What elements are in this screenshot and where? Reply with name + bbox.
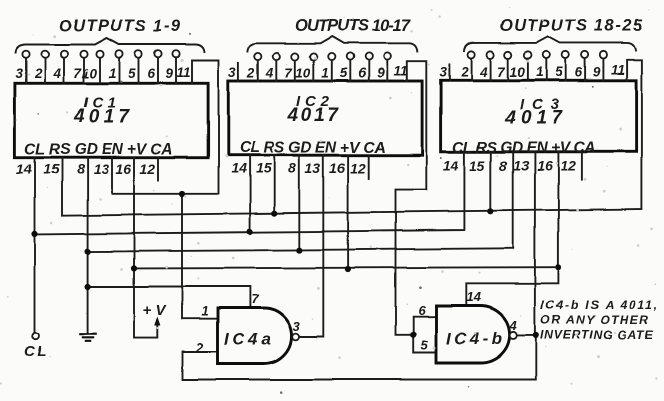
svg-text:OR ANY OTHER: OR ANY OTHER bbox=[541, 313, 649, 327]
svg-text:4: 4 bbox=[265, 66, 274, 81]
svg-text:2: 2 bbox=[195, 340, 204, 355]
svg-text:11: 11 bbox=[610, 63, 624, 78]
svg-text:+V: +V bbox=[143, 302, 168, 319]
svg-text:15: 15 bbox=[256, 160, 272, 176]
svg-text:14: 14 bbox=[467, 290, 482, 305]
svg-text:5: 5 bbox=[555, 65, 563, 80]
svg-text:12: 12 bbox=[139, 161, 155, 177]
svg-text:3: 3 bbox=[15, 66, 23, 81]
svg-text:CL RS GD EN +V CA: CL RS GD EN +V CA bbox=[453, 140, 596, 157]
svg-text:8: 8 bbox=[289, 160, 297, 176]
svg-text:IC4-b: IC4-b bbox=[446, 329, 502, 348]
svg-text:OUTPUTS 18-25: OUTPUTS 18-25 bbox=[500, 17, 643, 35]
svg-text:10: 10 bbox=[82, 66, 98, 81]
svg-text:5: 5 bbox=[421, 338, 429, 353]
svg-text:1: 1 bbox=[321, 66, 329, 81]
svg-text:6: 6 bbox=[575, 65, 583, 80]
svg-text:5: 5 bbox=[128, 66, 136, 81]
svg-text:14: 14 bbox=[16, 161, 32, 177]
svg-text:13: 13 bbox=[93, 161, 109, 177]
svg-text:13: 13 bbox=[305, 160, 321, 176]
svg-text:3: 3 bbox=[228, 65, 236, 80]
svg-text:4: 4 bbox=[52, 66, 61, 81]
svg-text:6: 6 bbox=[358, 66, 366, 81]
svg-text:15: 15 bbox=[43, 161, 59, 177]
svg-text:6: 6 bbox=[418, 303, 426, 318]
svg-text:9: 9 bbox=[377, 66, 385, 81]
svg-text:2: 2 bbox=[246, 66, 255, 81]
svg-text:9: 9 bbox=[165, 66, 173, 81]
svg-text:1: 1 bbox=[536, 65, 544, 80]
svg-text:16: 16 bbox=[537, 158, 553, 174]
svg-text:15: 15 bbox=[469, 158, 485, 174]
svg-text:13: 13 bbox=[513, 158, 529, 174]
svg-text:3: 3 bbox=[293, 319, 301, 334]
svg-text:6: 6 bbox=[147, 66, 155, 81]
svg-text:4: 4 bbox=[479, 65, 488, 80]
svg-text:OUTPUTS 10-17: OUTPUTS 10-17 bbox=[295, 17, 411, 35]
svg-text:8: 8 bbox=[77, 161, 85, 177]
svg-text:11: 11 bbox=[393, 64, 407, 79]
svg-text:7: 7 bbox=[251, 292, 259, 307]
svg-text:2: 2 bbox=[33, 66, 42, 81]
svg-text:CL RS GD EN +V CA: CL RS GD EN +V CA bbox=[25, 141, 173, 158]
svg-text:12: 12 bbox=[560, 158, 576, 174]
svg-text:5: 5 bbox=[340, 66, 348, 81]
svg-text:2: 2 bbox=[460, 65, 469, 80]
svg-text:10: 10 bbox=[295, 66, 311, 81]
svg-text:9: 9 bbox=[593, 65, 601, 80]
svg-text:10: 10 bbox=[510, 65, 526, 80]
svg-text:16: 16 bbox=[330, 160, 346, 176]
svg-text:3: 3 bbox=[439, 65, 447, 80]
svg-text:INVERTING GATE: INVERTING GATE bbox=[540, 328, 654, 342]
svg-text:1: 1 bbox=[108, 66, 116, 81]
svg-text:14: 14 bbox=[443, 158, 459, 174]
svg-text:16: 16 bbox=[115, 161, 131, 177]
svg-text:14: 14 bbox=[232, 160, 248, 176]
svg-text:12: 12 bbox=[350, 160, 366, 176]
svg-text:1: 1 bbox=[201, 304, 208, 319]
svg-text:11: 11 bbox=[176, 65, 190, 80]
svg-text:4: 4 bbox=[509, 318, 518, 333]
svg-text:OUTPUTS 1-9: OUTPUTS 1-9 bbox=[59, 18, 181, 36]
svg-text:CL RS GD EN +V CA: CL RS GD EN +V CA bbox=[240, 140, 386, 157]
svg-text:8: 8 bbox=[499, 158, 507, 174]
